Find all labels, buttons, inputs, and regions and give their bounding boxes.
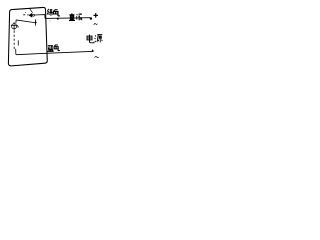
wire: lamp to junction	[16, 20, 34, 23]
lamp top lead	[15, 20, 17, 23]
lamp (circle with cross)	[11, 22, 18, 30]
squiggle near negative terminal	[95, 56, 99, 57]
blue wire to negative terminal	[40, 51, 91, 53]
wire: down-left bend to bottom exit	[16, 49, 40, 55]
stray dot near wire start	[24, 11, 27, 14]
label 绿色	[47, 9, 52, 16]
diagonal mark from box top	[29, 8, 32, 13]
dot on green wire	[57, 18, 59, 20]
label 蓝色	[47, 45, 53, 51]
small circle terminal	[33, 14, 35, 16]
inner wire stub	[17, 40, 19, 45]
stray dot	[49, 20, 52, 23]
plus sign	[94, 13, 98, 18]
positive terminal dot	[90, 17, 93, 20]
upper stub wire	[23, 14, 29, 16]
junction tick	[35, 19, 37, 25]
squiggle near positive terminal	[94, 23, 98, 25]
junction dot	[35, 21, 37, 23]
wire to box edge	[35, 15, 46, 19]
arrowhead (points left)	[29, 13, 33, 18]
green wire to positive terminal	[45, 17, 90, 20]
lamp bottom lead (dashed)	[13, 31, 15, 50]
label 电源	[87, 35, 94, 43]
appliance box (rounded, slightly tilted)	[8, 7, 47, 65]
label 直流	[69, 13, 75, 20]
blue wire end arrow	[91, 49, 94, 52]
